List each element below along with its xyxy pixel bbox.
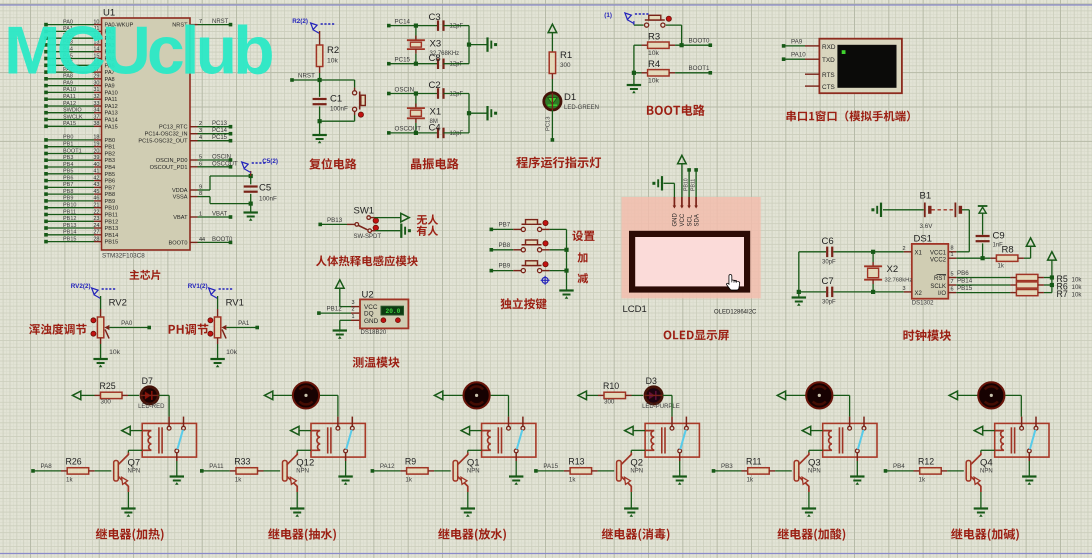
power arrow motor <box>777 391 785 400</box>
svg-text:SW-SPDT: SW-SPDT <box>354 234 382 240</box>
net label RV1(2) <box>209 288 216 295</box>
svg-text:R7: R7 <box>1057 289 1068 299</box>
wire X1 row <box>833 251 904 253</box>
svg-text:42: 42 <box>93 175 99 181</box>
svg-text:12pF: 12pF <box>450 62 464 68</box>
resistor R6 <box>948 284 956 286</box>
svg-text:21: 21 <box>93 203 99 209</box>
OLED LCD1 body <box>622 197 761 298</box>
ground emitter Q4 <box>974 507 988 509</box>
svg-text:PB12: PB12 <box>63 216 76 222</box>
svg-text:PB15: PB15 <box>105 240 119 246</box>
svg-text:SDA: SDA <box>694 214 700 226</box>
wire U1 pin PB13 <box>46 227 94 229</box>
wire U1 pin PB15 <box>46 241 94 243</box>
push button BOOT <box>634 24 644 26</box>
svg-text:PA15: PA15 <box>543 463 558 470</box>
svg-text:NPN: NPN <box>296 469 309 475</box>
svg-text:3: 3 <box>902 286 905 292</box>
svg-text:PB9: PB9 <box>63 196 73 202</box>
wire PA9 RXD <box>782 44 786 48</box>
svg-text:300: 300 <box>101 399 112 406</box>
wire U1 pin PA5 <box>46 58 94 60</box>
wire B1 to VCC1 <box>962 209 970 211</box>
svg-text:37: 37 <box>93 114 99 120</box>
wire to power arrow R5R6R7 <box>1051 260 1053 277</box>
pin CTS stub <box>805 85 819 87</box>
svg-text:27: 27 <box>93 230 99 236</box>
svg-text:PB8: PB8 <box>63 189 73 195</box>
svg-text:BOOT0: BOOT0 <box>212 237 233 243</box>
resistor R1 <box>549 52 555 74</box>
power arrow R25 <box>72 391 80 400</box>
svg-text:R11: R11 <box>746 457 762 467</box>
label 串口1窗口（模拟手机端） <box>786 110 910 121</box>
wire U1 pin OSCOUT_PD1 <box>190 166 198 168</box>
pin RTS stub <box>805 73 819 75</box>
svg-text:28: 28 <box>93 236 99 242</box>
resistor R25 <box>101 392 123 398</box>
transistor Q1 <box>453 461 458 482</box>
svg-text:12pF: 12pF <box>450 92 464 98</box>
capacitor C6 <box>799 251 826 253</box>
svg-text:RV1: RV1 <box>226 298 244 309</box>
power arrow relay coil <box>461 426 469 435</box>
svg-text:PB7: PB7 <box>105 185 116 191</box>
svg-text:R10: R10 <box>603 381 619 391</box>
relay switch contacts <box>671 417 673 427</box>
svg-text:PB1: PB1 <box>63 142 73 148</box>
svg-text:PC15: PC15 <box>395 57 411 64</box>
wire U1 pin PA6 <box>46 64 94 66</box>
svg-text:1k: 1k <box>66 477 73 484</box>
svg-text:24: 24 <box>93 223 99 229</box>
svg-text:300: 300 <box>604 399 615 406</box>
svg-text:SW1: SW1 <box>354 206 375 217</box>
wire U1 pin PB3 <box>46 159 94 161</box>
relay switch contacts <box>168 417 170 427</box>
wire PC15 row <box>387 62 391 66</box>
ground relay common <box>1022 475 1036 477</box>
svg-text:C7: C7 <box>822 276 834 287</box>
svg-text:BOOT0: BOOT0 <box>689 38 711 45</box>
main chip U1 body <box>102 18 191 250</box>
wire motor to relay <box>320 394 338 396</box>
wire U1 pin BOOT0 <box>190 241 198 243</box>
wire OLED SDA <box>695 170 697 197</box>
wire LED to relay <box>663 394 672 396</box>
wire U1 pin PA10 <box>46 91 94 93</box>
svg-text:1k: 1k <box>747 477 754 484</box>
wire U1 pin PC15-OSC32_OUT <box>190 140 198 142</box>
label 减 <box>578 273 589 283</box>
wire relay common to ground <box>679 453 681 461</box>
wire PC14 row <box>387 24 391 28</box>
svg-text:R12: R12 <box>918 457 934 467</box>
svg-text:PB10: PB10 <box>683 178 689 191</box>
push button PB9 <box>521 269 525 273</box>
svg-text:PA13: PA13 <box>105 111 118 117</box>
svg-text:30pF: 30pF <box>822 260 836 266</box>
wire emitter Q2 <box>630 486 632 492</box>
svg-text:PC14: PC14 <box>395 18 411 25</box>
wire collector Q4 <box>980 450 982 452</box>
svg-text:R1: R1 <box>560 50 572 61</box>
OLED pins <box>673 197 675 206</box>
svg-text:X1: X1 <box>430 107 442 118</box>
svg-text:4: 4 <box>199 135 202 141</box>
ground right <box>486 106 488 120</box>
label 继电器(加酸) <box>777 528 845 541</box>
svg-text:5: 5 <box>951 271 954 277</box>
crystal X1 <box>415 94 417 109</box>
svg-text:PB14: PB14 <box>105 233 119 239</box>
wire U1 pin PA13 <box>46 112 94 114</box>
svg-text:C5(2): C5(2) <box>262 158 278 165</box>
label 继电器(加碱) <box>951 528 1019 541</box>
svg-text:C6: C6 <box>822 236 834 247</box>
svg-text:Q4: Q4 <box>980 457 993 468</box>
ground left OLED <box>661 176 663 190</box>
power arrow right 无人 <box>401 213 409 222</box>
svg-text:1: 1 <box>351 314 354 320</box>
wire coil to collector <box>297 449 311 451</box>
wire U1 pin NRST <box>190 24 198 26</box>
svg-text:OLED12864I2C: OLED12864I2C <box>714 310 757 316</box>
wire U1 pin PB14 <box>46 234 94 236</box>
svg-text:PA12: PA12 <box>380 463 395 470</box>
transistor Q3 <box>794 461 799 482</box>
svg-text:OSCOUT_PD1: OSCOUT_PD1 <box>150 165 188 171</box>
svg-text:10k: 10k <box>1072 284 1083 291</box>
relay RLQ3 <box>823 423 877 457</box>
svg-text:RV1(2): RV1(2) <box>188 283 208 290</box>
svg-text:RTS: RTS <box>822 72 835 79</box>
svg-text:LED-GREEN: LED-GREEN <box>564 105 599 111</box>
label 复位电路 <box>309 158 356 169</box>
ground below C1 <box>319 121 321 135</box>
svg-text:Q1: Q1 <box>467 457 480 468</box>
svg-text:41: 41 <box>93 169 99 175</box>
ground emitter Q12 <box>290 507 304 509</box>
svg-text:PA14: PA14 <box>105 118 118 124</box>
svg-text:2: 2 <box>351 307 354 313</box>
svg-text:STM32F103C8: STM32F103C8 <box>102 253 145 260</box>
ground relay common <box>509 475 523 477</box>
svg-text:PB0: PB0 <box>105 138 116 144</box>
resistor R12 <box>920 468 942 474</box>
svg-text:PB11: PB11 <box>63 209 76 215</box>
svg-text:1k: 1k <box>405 477 412 484</box>
svg-text:PB14: PB14 <box>957 277 973 284</box>
transistor Q7 <box>114 461 119 482</box>
svg-text:20.0: 20.0 <box>386 308 401 315</box>
svg-text:DS1: DS1 <box>914 234 932 245</box>
wire U1 pin PA4 <box>46 51 94 53</box>
svg-text:PA10: PA10 <box>105 90 118 96</box>
svg-text:PB4: PB4 <box>63 162 73 168</box>
svg-text:NPN: NPN <box>808 469 821 475</box>
wire U1 pin PC13_RTC <box>190 126 198 128</box>
svg-text:DS1302: DS1302 <box>912 301 934 307</box>
svg-text:PA8: PA8 <box>41 463 53 470</box>
wire coil to collector <box>981 449 995 451</box>
wire U1 VSSA <box>190 196 198 198</box>
svg-text:PB13: PB13 <box>327 217 343 224</box>
svg-text:C4: C4 <box>429 122 441 133</box>
wire U1 pin VBAT <box>190 216 198 218</box>
svg-text:10k: 10k <box>1072 292 1083 299</box>
svg-text:100nF: 100nF <box>330 106 348 113</box>
svg-text:PB12: PB12 <box>327 306 343 313</box>
svg-text:R13: R13 <box>568 457 584 467</box>
wire U1 pin OSCIN_PD0 <box>190 159 198 161</box>
wire U1 pin PB11 <box>46 214 94 216</box>
ground right 有人 <box>400 224 402 238</box>
svg-text:X3: X3 <box>430 39 442 50</box>
ground relay common <box>170 475 184 477</box>
svg-text:5: 5 <box>199 155 202 161</box>
svg-text:Q12: Q12 <box>296 457 314 468</box>
wire collector Q7 <box>127 450 129 452</box>
ground right <box>486 37 488 51</box>
svg-text:PB9: PB9 <box>499 263 511 270</box>
svg-text:PA9: PA9 <box>791 38 803 45</box>
wire VCC U2 <box>340 306 351 308</box>
svg-text:PB5: PB5 <box>105 172 116 178</box>
LED D1 <box>544 93 561 110</box>
svg-text:PB4: PB4 <box>893 463 905 470</box>
wire U1 VDDA <box>190 189 198 191</box>
wire U1 pin PB4 <box>46 166 94 168</box>
svg-text:OSCOUT: OSCOUT <box>212 161 238 167</box>
svg-text:VSSA: VSSA <box>173 195 188 201</box>
wire emitter Q7 <box>127 486 129 492</box>
wire collector Q12 <box>296 450 298 452</box>
svg-text:D3: D3 <box>646 376 657 386</box>
relay switch contacts <box>1021 417 1023 427</box>
relay RLQ2 <box>645 423 699 457</box>
resistor R5 <box>948 277 956 279</box>
power arrow above R1 <box>548 24 557 32</box>
net label (1) <box>625 13 632 20</box>
wire X2 row <box>833 291 904 293</box>
label 继电器(消毒) <box>602 528 670 541</box>
svg-text:R4: R4 <box>648 59 660 70</box>
wire OLED GND <box>673 183 675 197</box>
ground below U2 <box>333 329 347 331</box>
svg-text:PA15: PA15 <box>105 124 118 130</box>
svg-text:PC13_RTC: PC13_RTC <box>159 125 188 131</box>
power mark above C9 <box>978 205 988 207</box>
svg-text:LCD1: LCD1 <box>623 304 647 315</box>
svg-text:SWDIO: SWDIO <box>63 108 82 114</box>
label 人体热释电感应模块 <box>316 255 418 266</box>
wire LED to relay <box>159 394 170 396</box>
wire OSCOUT row <box>387 131 391 135</box>
svg-text:I/O: I/O <box>938 291 946 297</box>
svg-text:1: 1 <box>951 252 954 258</box>
wire coil to collector <box>631 449 645 451</box>
svg-text:VCC1: VCC1 <box>930 250 947 256</box>
svg-text:39: 39 <box>93 155 99 161</box>
wire PA12 <box>371 469 375 473</box>
capacitor C4 <box>437 128 439 139</box>
ground relay common <box>673 475 687 477</box>
svg-text:PB10: PB10 <box>63 203 76 209</box>
wire emitter Q12 <box>296 486 298 492</box>
svg-text:PB11: PB11 <box>690 179 696 191</box>
capacitor C1 <box>319 80 321 97</box>
wire PB9 <box>490 269 494 273</box>
wire U1 pin PA7 <box>46 71 94 73</box>
wire relay common to ground <box>856 453 858 461</box>
svg-text:SWCLK: SWCLK <box>63 114 83 120</box>
wire motor to relay <box>833 394 849 396</box>
wire PA15 <box>534 469 538 473</box>
svg-text:B1: B1 <box>920 191 932 202</box>
svg-text:1k: 1k <box>998 264 1005 270</box>
svg-text:PC14-OSC32_IN: PC14-OSC32_IN <box>145 132 188 138</box>
svg-text:DQ: DQ <box>364 311 374 318</box>
ground below C5 <box>244 211 258 213</box>
svg-text:PB3: PB3 <box>105 158 116 164</box>
svg-text:9: 9 <box>199 185 202 191</box>
LED D3 <box>645 387 662 404</box>
svg-text:100nF: 100nF <box>259 196 277 203</box>
svg-text:6: 6 <box>199 161 202 167</box>
svg-text:43: 43 <box>93 182 99 188</box>
svg-text:D7: D7 <box>142 376 153 386</box>
wire collector Q2 <box>630 450 632 452</box>
svg-text:PB14: PB14 <box>63 230 76 236</box>
svg-text:OSCIN: OSCIN <box>395 86 415 93</box>
label 晶振电路 <box>411 158 459 170</box>
svg-text:PB13: PB13 <box>63 223 76 229</box>
potentiometer RV2 <box>100 296 102 309</box>
motor <box>463 394 491 396</box>
relay switch contacts <box>849 417 851 427</box>
svg-text:PC13: PC13 <box>212 121 228 127</box>
wire U1 pin PB9 <box>46 200 94 202</box>
label 独立按键 <box>500 298 546 309</box>
svg-text:10k: 10k <box>648 50 660 57</box>
svg-text:12pF: 12pF <box>450 131 464 137</box>
svg-text:RST: RST <box>934 276 946 282</box>
wire PB3 <box>712 469 716 473</box>
svg-text:PA11: PA11 <box>209 463 224 470</box>
power arrow relay coil <box>802 426 810 435</box>
relay RLQ4 <box>995 423 1049 457</box>
svg-text:32: 32 <box>93 94 99 100</box>
resistor R8 <box>948 257 956 259</box>
sheet border top <box>0 4 1092 6</box>
svg-text:D1: D1 <box>564 92 576 103</box>
transistor Q12 <box>283 461 288 482</box>
svg-text:3.6V: 3.6V <box>920 223 934 230</box>
ground relay common <box>338 475 352 477</box>
svg-text:VBAT: VBAT <box>173 215 188 221</box>
svg-text:44: 44 <box>199 237 205 243</box>
wire right vertical <box>468 26 470 64</box>
svg-text:30pF: 30pF <box>822 300 836 306</box>
svg-text:1k: 1k <box>235 477 242 484</box>
svg-text:10k: 10k <box>226 349 238 356</box>
svg-text:PB2: PB2 <box>105 152 116 158</box>
svg-text:NRST: NRST <box>298 73 315 80</box>
svg-text:18: 18 <box>93 135 99 141</box>
power arrow relay coil <box>625 426 633 435</box>
wire emitter Q3 <box>808 486 810 492</box>
svg-text:RXD: RXD <box>822 44 836 51</box>
OLED screen frame <box>629 231 750 293</box>
svg-text:R8: R8 <box>1002 245 1014 256</box>
battery B1 <box>880 203 882 217</box>
LED D7 <box>141 387 158 404</box>
wire NRST node <box>292 79 355 81</box>
power arrow motor <box>949 391 957 400</box>
ground C6 C7 <box>792 296 806 298</box>
label 加 <box>578 252 588 262</box>
ground relay common <box>850 475 864 477</box>
power arrow above U2 <box>336 280 345 288</box>
mouse cursor <box>727 275 740 291</box>
svg-text:C9: C9 <box>993 231 1005 242</box>
svg-text:PB12: PB12 <box>105 219 119 225</box>
svg-text:NPN: NPN <box>630 469 643 475</box>
svg-text:23: 23 <box>93 216 99 222</box>
svg-text:PB7: PB7 <box>499 221 511 228</box>
svg-text:X2: X2 <box>887 264 899 275</box>
wire D1 to PC13 <box>551 110 553 140</box>
svg-text:GND: GND <box>364 318 379 325</box>
wire collector Q3 <box>808 450 810 452</box>
transistor Q2 <box>617 461 622 482</box>
wire U1 pin PB5 <box>46 173 94 175</box>
svg-text:PA12: PA12 <box>105 104 118 110</box>
label PH调节 <box>169 324 209 335</box>
net label C5(2) <box>242 162 249 169</box>
svg-text:VBAT: VBAT <box>212 212 228 218</box>
svg-text:PB15: PB15 <box>63 236 76 242</box>
wire emitter Q1 <box>467 486 469 492</box>
wire relay common to ground <box>515 453 517 461</box>
resistor R33 <box>236 468 258 474</box>
svg-text:Q7: Q7 <box>128 457 141 468</box>
svg-text:LED-PURPLE: LED-PURPLE <box>642 404 680 410</box>
wire PB12 DQ <box>317 311 321 315</box>
ground emitter Q3 <box>802 507 816 509</box>
svg-text:R2(2): R2(2) <box>292 18 308 25</box>
relay switch contacts <box>508 417 510 427</box>
wire U1 pin PB8 <box>46 193 94 195</box>
capacitor C5 <box>249 174 253 178</box>
label 无人 <box>417 214 438 224</box>
svg-text:PB7: PB7 <box>63 182 73 188</box>
resistor R11 <box>748 468 770 474</box>
svg-text:1k: 1k <box>919 477 926 484</box>
svg-text:Q2: Q2 <box>630 457 643 468</box>
svg-text:CTS: CTS <box>822 84 835 91</box>
svg-text:PB6: PB6 <box>63 175 73 181</box>
power arrow relay coil <box>291 426 299 435</box>
svg-text:PB5: PB5 <box>63 169 73 175</box>
wire U1 pin PA11 <box>46 98 94 100</box>
svg-text:PA1: PA1 <box>238 320 250 327</box>
svg-text:PA11: PA11 <box>105 97 118 103</box>
wire U1 pin PB1 <box>46 146 94 148</box>
wire U1 pin PA2 <box>46 37 94 39</box>
